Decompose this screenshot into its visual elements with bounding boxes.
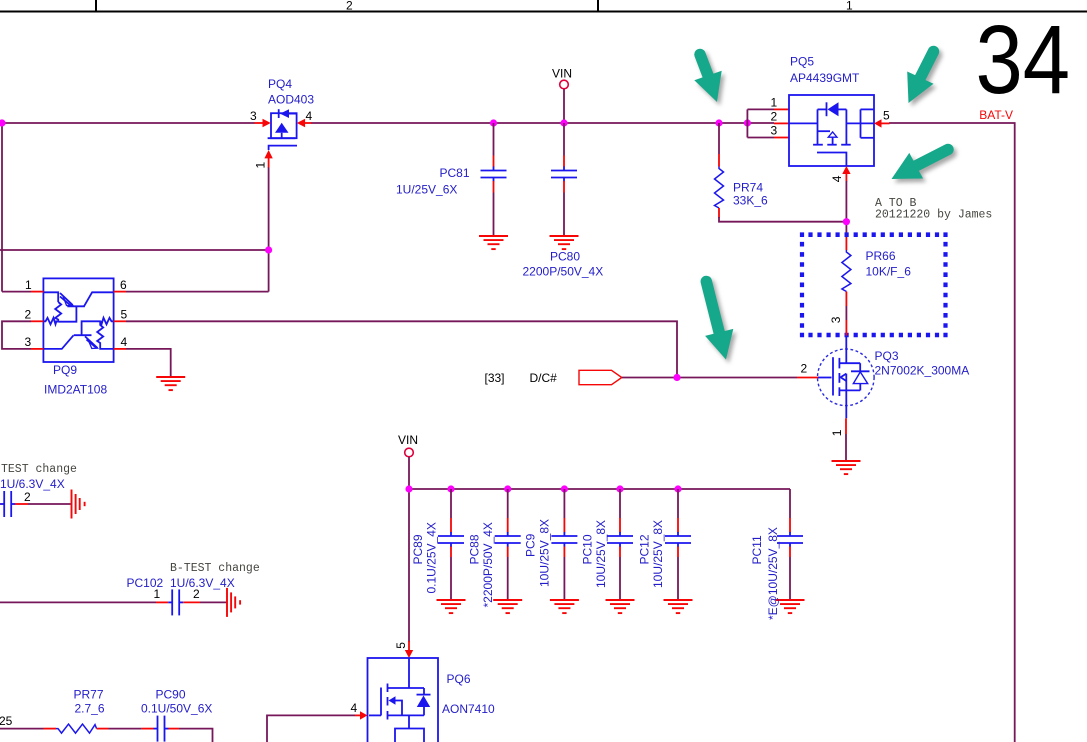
PQ4 pin1 red arrow up [264,150,272,168]
PQ6 pin4 red arrow and stub [355,711,368,719]
svg-text:1: 1 [830,429,844,436]
svg-text:10K/F_6: 10K/F_6 [866,265,912,279]
junction at (507.7,489) [504,485,511,492]
ground at PC89 [437,600,466,613]
svg-text:PQ3: PQ3 [875,349,899,363]
power node VIN middle [398,433,418,457]
wire PQ4 drain vertical [268,167,270,292]
svg-text:4: 4 [830,175,844,182]
optocoupler-style dual transistor PQ9 [43,278,113,362]
svg-text:10U/25V_8X: 10U/25V_8X [594,520,608,588]
sheet top border line [0,11,1087,13]
PQ4 pin4 red stub and arrow [297,119,312,127]
PQ9 pin3 stub [31,348,43,350]
svg-text:D/C#: D/C# [530,371,558,385]
ground at PC80 [550,236,579,249]
svg-text:PC12: PC12 [638,534,652,564]
svg-text:2.7_6: 2.7_6 [75,702,105,716]
svg-text:PQ6: PQ6 [447,672,471,686]
wire PC90 to bottom edge [179,729,213,742]
power node VIN top [552,67,572,89]
junction at (564,123) [560,119,567,126]
svg-text:5: 5 [394,642,408,649]
svg-text:2: 2 [771,110,778,124]
PQ5 pin3 stub [774,137,789,139]
transistor PQ3 [818,336,875,418]
svg-text:PC88: PC88 [468,534,482,564]
PQ9 pin6 stub [114,291,126,293]
transistor PQ6 [368,658,439,742]
capacitor PC10 [607,489,633,600]
svg-text:PC89: PC89 [411,534,425,564]
svg-text:PR77: PR77 [74,688,104,702]
green arrow 2 (to PQ5 pin5) [907,52,933,104]
junction at (747.4,123) [744,119,751,126]
wire left vertical x=2 [1,123,3,292]
svg-text:IMD2AT108: IMD2AT108 [44,383,107,397]
capacitor PC102 [0,589,227,615]
junction at (620,489) [616,485,623,492]
capacitor PC12 [665,489,691,600]
svg-text:1U/6.3V_4X: 1U/6.3V_4X [0,477,65,491]
wire PQ9 pin1 to left rail [2,291,31,293]
capacitor PC88 [495,489,521,600]
wire PQ9 pin5 to D/C# junction [126,321,677,377]
svg-text:5: 5 [883,109,890,123]
ground at PC12 [664,600,693,613]
signal flag [33] D/C# [485,370,622,385]
resistor PR66 [842,238,851,336]
svg-text:2N7002K_300MA: 2N7002K_300MA [875,364,970,378]
capacitor PC81 [481,123,507,236]
svg-text:10U/25V_8X: 10U/25V_8X [651,520,665,588]
svg-text:1: 1 [253,162,267,169]
svg-text:*2200P/50V_4X: *2200P/50V_4X [481,522,495,607]
ground at PC88 [493,600,522,613]
junction at (2,123) [0,119,6,126]
PQ9 pin1 stub [31,291,43,293]
junction at (268.6,250) [265,246,272,253]
wire VIN to bus [563,89,565,123]
svg-text:AON7410: AON7410 [442,702,495,716]
dotted highlight box around PR66 [800,235,948,335]
svg-text:5: 5 [121,308,128,322]
PQ9 pin4 stub [114,348,126,350]
svg-text:1: 1 [25,278,32,292]
resistor PR77 [0,724,109,733]
capacitor PC89 [438,489,464,600]
svg-text:2: 2 [801,362,808,376]
svg-text:33K_6: 33K_6 [733,194,768,208]
capacitor TEST change (cut at left edge) [0,491,71,517]
wire PQ3 source to ground [845,418,847,461]
svg-text:PQ4: PQ4 [268,77,292,91]
green arrow 1 (to main bus near PR74) [694,55,721,103]
green arrow 4 (to D/C# wire) [705,282,733,360]
svg-text:PC81: PC81 [440,166,470,180]
PQ5 pin1 stub [774,108,789,110]
ground at PQ9 pin4 [156,377,185,390]
capacitor PC11 [777,489,803,600]
svg-text:PR66: PR66 [866,249,896,263]
svg-text:PC80: PC80 [550,250,580,264]
wire VIN down to PQ6 [408,489,410,642]
svg-text:B-TEST change: B-TEST change [170,562,260,575]
svg-text:34: 34 [976,5,1071,114]
junction at (846.4,221.7) [843,218,850,225]
svg-text:VIN: VIN [398,433,418,447]
ground at PC11 [776,600,805,613]
svg-text:2: 2 [24,490,31,504]
svg-text:PC11: PC11 [750,535,764,564]
green arrow 3 (to PQ5 pin4 wire) [892,150,949,180]
svg-text:1U/6.3V_4X: 1U/6.3V_4X [170,576,235,590]
svg-text:PQ9: PQ9 [53,363,77,377]
svg-text:0.1U/50V_6X: 0.1U/50V_6X [141,702,212,716]
wire PQ9 pin6 to PQ4 drain [126,291,269,293]
svg-text:4: 4 [306,109,313,123]
PQ3 gate red stub [797,377,819,379]
wire PQ5 pin4 vertical through junction [845,181,847,238]
svg-text:1U/25V_6X: 1U/25V_6X [396,183,457,197]
wire to PQ6 pin4 from bottom left [267,715,355,742]
ground at PQ3 source [832,461,861,474]
wire main bus right segment to BAT-V [889,123,1015,742]
capacitor PC80 [551,123,577,236]
svg-text:VIN: VIN [552,67,572,81]
wire PQ9 pin2-pin3 loop [2,321,31,349]
svg-text:6: 6 [120,278,127,292]
junction at (719,123) [715,119,722,126]
PQ9 pin5 stub [114,320,126,322]
junction at (564.4,489) [561,485,568,492]
svg-text:2200P/50V_4X: 2200P/50V_4X [523,265,604,279]
svg-text:PR74: PR74 [733,181,763,195]
svg-text:1: 1 [154,587,161,601]
svg-text:TEST change: TEST change [1,463,77,476]
wire PQ5 pin bracket [747,109,774,137]
svg-text:2: 2 [346,0,353,13]
ground at PC81 [479,236,508,249]
svg-text:AP4439GMT: AP4439GMT [790,71,860,85]
svg-text:3: 3 [250,109,257,123]
svg-text:AOD403: AOD403 [268,93,314,107]
svg-text:10U/25V_8X: 10U/25V_8X [538,519,552,587]
wire VIN to cap bank bus [408,457,410,489]
PQ5 pin5 red arrow and stub [874,119,890,127]
junction at (678,489) [674,485,681,492]
transistor PQ5 [789,95,874,166]
svg-text:4: 4 [351,701,358,715]
junction at (409,489) [405,485,412,492]
ground (right facing) at PC102 [227,588,240,617]
svg-text:0.1U/25V_4X: 0.1U/25V_4X [425,522,439,593]
wire main bus middle segment [311,122,774,124]
svg-text:3: 3 [829,316,843,323]
wire PR74 bottom to PQ5 pin4 net [719,217,846,222]
svg-text:4: 4 [121,335,128,349]
svg-text:PQ5: PQ5 [790,55,814,69]
wire cap bank bus [409,488,790,490]
junction at (677,377.5) [673,374,680,381]
PQ4 pin3 red stub and arrow [255,119,271,127]
ground (right facing) at TEST cap [72,490,85,519]
capacitor PC9 [551,489,577,600]
PQ6 pin5 red arrow [405,641,413,658]
svg-text:2: 2 [25,308,32,322]
wire main bus left segment [0,122,255,124]
junction at (493.5,123) [490,119,497,126]
svg-text:2: 2 [193,587,200,601]
svg-text:BAT-V: BAT-V [979,108,1013,122]
svg-text:3: 3 [771,124,778,138]
capacitor PC90 [109,716,180,742]
svg-text:1: 1 [771,96,778,110]
PQ5 pin4 red arrow and stub [842,166,850,182]
wire horizontal y=250 [0,249,269,251]
ground at PC10 [606,600,635,613]
svg-text:25: 25 [0,714,13,728]
svg-text:*E@10U/25V_8X: *E@10U/25V_8X [766,527,780,620]
svg-text:3: 3 [25,335,32,349]
svg-text:1: 1 [846,0,853,13]
PQ5 pin2 stub [774,122,789,124]
junction at (451,489) [447,485,454,492]
wire PQ9 pin4 to ground [126,349,171,377]
svg-text:PC90: PC90 [156,688,186,702]
resistor PR74 [715,123,724,218]
wire D/C# to PQ3 gate [622,377,797,379]
svg-text:20121220 by James: 20121220 by James [875,209,992,222]
ground at PC9 [550,600,579,613]
transistor PQ4 [268,109,297,150]
svg-text:[33]: [33] [485,371,505,385]
PQ9 pin2 stub [31,320,43,322]
svg-text:PC10: PC10 [581,534,595,564]
svg-text:PC9: PC9 [524,533,538,557]
